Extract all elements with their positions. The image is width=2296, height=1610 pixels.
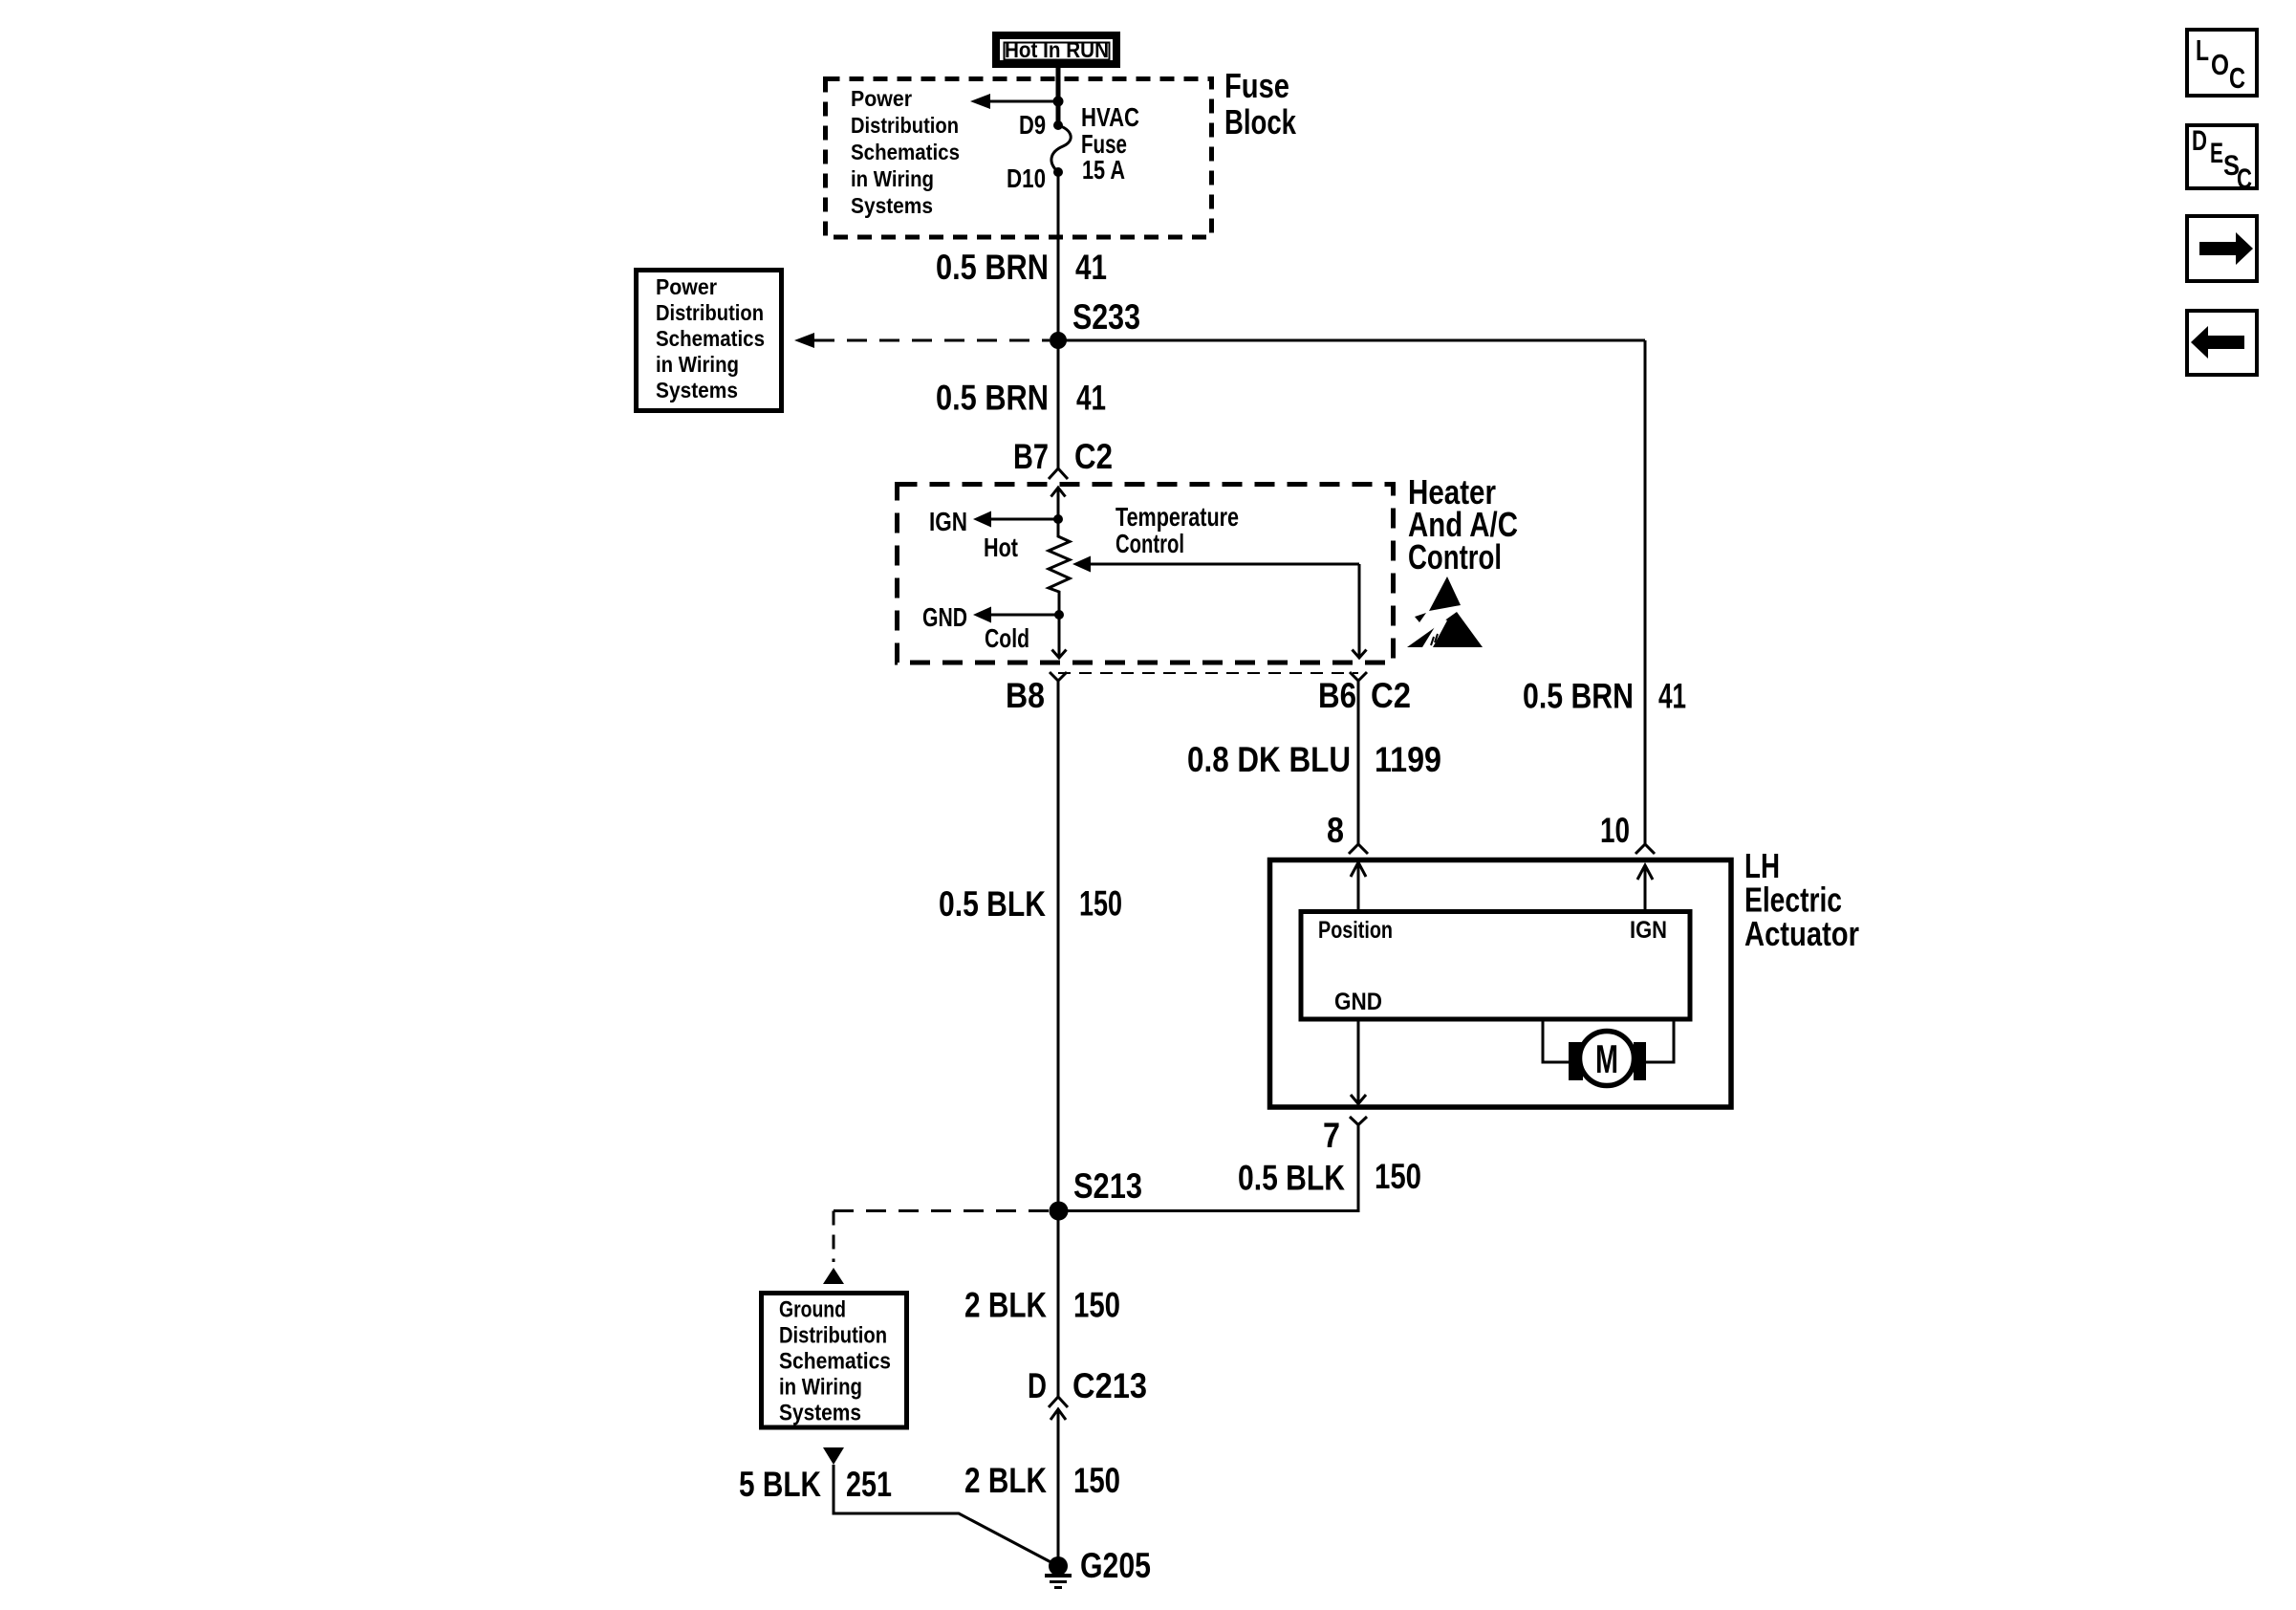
- svg-text:Hot In RUN: Hot In RUN: [1005, 37, 1109, 62]
- svg-text:C2: C2: [1371, 676, 1411, 715]
- dashed reference wire to power distribution box: [814, 339, 1050, 342]
- motor M: [1580, 1032, 1635, 1086]
- svg-text:C: C: [2229, 61, 2245, 95]
- svg-text:HVAC: HVAC: [1081, 102, 1139, 132]
- ground distribution reference box: [762, 1294, 907, 1428]
- svg-text:10: 10: [1600, 811, 1630, 850]
- svg-text:2 BLK: 2 BLK: [964, 1461, 1047, 1500]
- IGN pin junction dot: [1053, 514, 1063, 524]
- svg-text:0.5 BRN: 0.5 BRN: [936, 379, 1049, 418]
- potentiometer wiper arrow: [1088, 563, 1359, 566]
- connector C2 in-line (thin dashed): [1058, 672, 1358, 674]
- wire 2 BLK 150 (C213 to G205): [1057, 1409, 1060, 1566]
- svg-text:D9: D9: [1019, 110, 1046, 140]
- GND pin junction dot: [1054, 610, 1064, 620]
- svg-text:Schematics: Schematics: [779, 1349, 891, 1375]
- actuator entry arrow pin 10 wire: [1644, 865, 1647, 911]
- svg-text:D: D: [2192, 125, 2207, 157]
- svg-text:2 BLK: 2 BLK: [964, 1286, 1047, 1325]
- svg-text:41: 41: [1076, 379, 1106, 418]
- svg-text:E: E: [2210, 138, 2223, 169]
- nav icon DESC: [2187, 125, 2257, 195]
- svg-text:41: 41: [1658, 677, 1686, 716]
- LH electric actuator box: [1270, 860, 1732, 1108]
- svg-text:Systems: Systems: [851, 193, 933, 218]
- wire 5 BLK 251 (to G205): [834, 1465, 1058, 1566]
- svg-text:Actuator: Actuator: [1744, 914, 1859, 953]
- wire 2 BLK 150 (S213 to C213): [1057, 1211, 1060, 1398]
- svg-text:C: C: [2237, 163, 2252, 195]
- branch arrow to power distribution: [990, 100, 1058, 103]
- svg-text:Systems: Systems: [779, 1401, 861, 1426]
- svg-text:Fuse: Fuse: [1224, 66, 1289, 105]
- IGN arrow: [990, 518, 1058, 521]
- svg-text:B7: B7: [1013, 437, 1049, 476]
- svg-text:Hot: Hot: [984, 533, 1018, 562]
- temperature control potentiometer (resistor): [1049, 519, 1070, 615]
- wire S233 to B7 (0.5 BRN 41): [1057, 340, 1060, 468]
- svg-text:8: 8: [1327, 811, 1344, 850]
- svg-text:B8: B8: [1006, 676, 1045, 715]
- wiper wire down to B6: [1358, 564, 1361, 658]
- nav icon back arrow: [2187, 311, 2257, 375]
- svg-text:in Wiring: in Wiring: [851, 166, 934, 191]
- ESD sensitivity symbol: [1407, 577, 1483, 647]
- ground G205: [1049, 1556, 1068, 1576]
- svg-text:L: L: [2196, 33, 2209, 67]
- pin 7: [1350, 1117, 1367, 1125]
- svg-text:150: 150: [1375, 1157, 1421, 1196]
- wire 0.5 BLK 150 (B8 to S213): [1057, 681, 1060, 1210]
- svg-text:150: 150: [1073, 1286, 1120, 1325]
- svg-text:Control: Control: [1116, 529, 1184, 558]
- svg-text:IGN: IGN: [1630, 917, 1667, 944]
- svg-text:S213: S213: [1073, 1166, 1142, 1206]
- splice S233: [1050, 332, 1067, 349]
- wire 0.5 BLK 150 (pin 7 to S213): [1059, 1125, 1358, 1211]
- svg-text:O: O: [2211, 48, 2229, 81]
- actuator internal block: [1301, 912, 1690, 1020]
- svg-text:Power: Power: [656, 274, 717, 299]
- GND arrow: [990, 614, 1059, 617]
- svg-text:Distribution: Distribution: [656, 300, 764, 325]
- exit arrow below ground box: [823, 1447, 844, 1465]
- heater and A/C control module (dashed box): [898, 485, 1394, 664]
- svg-text:5 BLK: 5 BLK: [739, 1465, 821, 1504]
- svg-text:B6: B6: [1318, 676, 1356, 715]
- svg-text:1199: 1199: [1375, 740, 1441, 779]
- wire 0.5 BRN 41 (fuse D10 to S233): [1057, 172, 1060, 340]
- svg-text:0.8 DK BLU: 0.8 DK BLU: [1187, 740, 1351, 779]
- GND exit wire with arrow down: [1357, 1019, 1360, 1103]
- dashed reference wire to ground distribution: [834, 1209, 1050, 1212]
- svg-text:in Wiring: in Wiring: [779, 1375, 862, 1401]
- HVAC fuse element: [1051, 125, 1071, 172]
- wire 0.5 BRN 41 (S233 to actuator pin 10): [1058, 339, 1645, 342]
- actuator entry arrow pin 8 wire: [1357, 862, 1360, 911]
- svg-text:D10: D10: [1007, 163, 1046, 193]
- svg-text:in Wiring: in Wiring: [656, 352, 739, 377]
- nav icon forward arrow: [2187, 216, 2257, 281]
- svg-text:0.5 BRN: 0.5 BRN: [1523, 677, 1634, 716]
- power label "Hot In RUN": [996, 35, 1116, 64]
- male half of connector (arrow up): [1051, 488, 1066, 497]
- terminal D10 dot: [1053, 167, 1063, 177]
- fuse block (dashed box): [826, 79, 1212, 238]
- svg-text:Distribution: Distribution: [851, 113, 959, 138]
- svg-text:0.5 BLK: 0.5 BLK: [1238, 1159, 1345, 1198]
- motor brushes: [1569, 1042, 1583, 1080]
- svg-text:M: M: [1595, 1036, 1618, 1081]
- svg-text:251: 251: [846, 1465, 892, 1504]
- wire: unfused feed from Hot In RUN: [1056, 68, 1061, 125]
- splice S213: [1050, 1202, 1069, 1221]
- svg-text:7: 7: [1323, 1116, 1340, 1155]
- svg-text:150: 150: [1079, 884, 1122, 924]
- svg-text:Schematics: Schematics: [851, 140, 960, 164]
- svg-text:S233: S233: [1072, 297, 1140, 337]
- svg-text:Cold: Cold: [985, 623, 1029, 653]
- svg-text:Power: Power: [851, 86, 912, 111]
- svg-text:GND: GND: [922, 602, 967, 632]
- wire GND to B8 exit (arrow down): [1058, 615, 1061, 658]
- svg-text:Position: Position: [1318, 917, 1393, 944]
- svg-text:Systems: Systems: [656, 378, 738, 402]
- terminal D9 dot: [1053, 120, 1063, 130]
- svg-text:Schematics: Schematics: [656, 326, 765, 351]
- power distribution reference box: [637, 271, 782, 411]
- svg-text:GND: GND: [1334, 989, 1382, 1015]
- svg-text:Temperature: Temperature: [1116, 502, 1239, 532]
- svg-text:G205: G205: [1080, 1546, 1151, 1585]
- svg-text:Control: Control: [1408, 537, 1502, 577]
- svg-text:D: D: [1028, 1366, 1047, 1405]
- svg-text:150: 150: [1073, 1461, 1120, 1500]
- svg-text:Block: Block: [1224, 102, 1297, 141]
- svg-text:C213: C213: [1072, 1366, 1147, 1405]
- motor leads: [1543, 1019, 1570, 1062]
- junction (node) in fuse block: [1053, 97, 1064, 107]
- svg-text:C2: C2: [1074, 437, 1113, 476]
- svg-text:0.5 BLK: 0.5 BLK: [939, 884, 1046, 924]
- svg-text:15 A: 15 A: [1082, 155, 1125, 185]
- wire 0.8 DK BLU 1199 (B6 to actuator pin 8): [1357, 681, 1360, 844]
- svg-text:Distribution: Distribution: [779, 1323, 887, 1349]
- svg-text:41: 41: [1075, 248, 1107, 287]
- nav icon LOC: [2187, 30, 2257, 96]
- svg-text:0.5 BRN: 0.5 BRN: [936, 248, 1049, 287]
- svg-text:IGN: IGN: [929, 507, 967, 536]
- svg-text:Ground: Ground: [779, 1297, 846, 1323]
